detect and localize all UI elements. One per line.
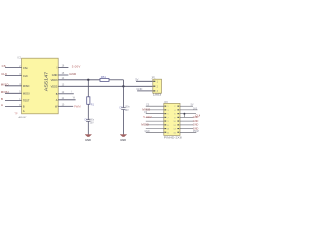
svg-text:GND: GND xyxy=(136,87,142,91)
wire JP2 left row1 xyxy=(146,105,164,107)
svg-text:FB1: FB1 xyxy=(101,75,107,79)
node junction on VDD3 wire xyxy=(87,79,89,81)
svg-text:1X03: 1X03 xyxy=(153,93,162,97)
svg-text:MISO: MISO xyxy=(23,84,30,88)
svg-text:5.00V: 5.00V xyxy=(72,65,81,69)
svg-text:100n: 100n xyxy=(89,120,95,122)
svg-text:GND: GND xyxy=(120,138,126,142)
svg-text:B: B xyxy=(1,97,3,101)
pin MISO (left row3) xyxy=(5,83,29,88)
svg-text:MOSI: MOSI xyxy=(141,123,149,127)
svg-text:VDD3: VDD3 xyxy=(51,78,58,82)
pin MOSI (left row4) xyxy=(5,91,30,96)
capacitor C7 xyxy=(119,106,130,112)
wire JP2 right row3 CLK with junction xyxy=(180,113,201,118)
wire R1 to C6 xyxy=(87,104,89,119)
svg-text:5.00V: 5.00V xyxy=(143,115,152,119)
svg-text:CLK: CLK xyxy=(23,74,28,78)
connector JP2 2x8 header xyxy=(164,103,180,135)
svg-text:A: A xyxy=(56,98,58,102)
resistor R1 xyxy=(87,97,95,107)
svg-text:CS: CS xyxy=(146,105,150,107)
svg-text:B: B xyxy=(23,105,25,109)
svg-text:PWM: PWM xyxy=(193,131,199,133)
wire JP2 right row1 5V xyxy=(180,103,194,106)
wire branch A vertical from junction xyxy=(87,80,89,98)
svg-text:MISO: MISO xyxy=(1,82,10,86)
svg-text:CS: CS xyxy=(144,112,148,114)
svg-text:GND: GND xyxy=(193,124,199,127)
svg-text:CLK: CLK xyxy=(1,72,7,76)
svg-text:B: B xyxy=(56,92,58,96)
svg-text:CSn: CSn xyxy=(23,66,29,70)
pin A right row6 xyxy=(56,96,76,102)
inductor L1 ferrite bead xyxy=(100,75,109,81)
pin A (left row7, unconnected) xyxy=(14,109,25,115)
svg-text:GND: GND xyxy=(52,73,58,77)
wire JP2 right row6 xyxy=(180,124,199,127)
pin W right row7 xyxy=(55,103,73,108)
wire VDD3 bead to corner xyxy=(109,79,123,81)
pin B (left row6) xyxy=(5,104,25,109)
ground right xyxy=(120,135,127,142)
svg-text:PWM: PWM xyxy=(74,104,81,108)
svg-text:JP2: JP2 xyxy=(164,102,169,104)
svg-text:10V: 10V xyxy=(90,123,95,125)
svg-text:GND: GND xyxy=(145,131,150,133)
pin CLK (left row2) xyxy=(5,73,28,78)
svg-text:TP: TP xyxy=(14,112,18,115)
wire JP2 left row7 xyxy=(146,128,164,130)
svg-text:100n: 100n xyxy=(125,107,131,109)
wire GND into SV1 pin3 xyxy=(136,87,152,91)
svg-text:10V: 10V xyxy=(125,110,130,112)
wire branch B corner down xyxy=(122,80,124,108)
wire JP2 left row6 MOSI xyxy=(141,123,163,127)
wire C7 to ground xyxy=(122,110,124,135)
pin B right row5 xyxy=(56,91,74,96)
wire JP2 left row5 xyxy=(146,120,164,122)
wire VDD3 from pin to bead xyxy=(58,79,100,81)
ground left xyxy=(85,135,92,142)
svg-text:AS5147: AS5147 xyxy=(44,71,49,91)
JP2 pin squares and numbers xyxy=(164,106,179,135)
pin VDD3 (right row3) xyxy=(51,77,65,82)
wire JP2 right row5 xyxy=(180,120,199,123)
pin TEST (left row5) xyxy=(5,98,30,103)
svg-text:A: A xyxy=(23,109,25,113)
wire JP2 left row4 5.00V xyxy=(143,115,164,119)
svg-text:VDD5: VDD5 xyxy=(51,84,58,88)
capacitor C6 xyxy=(84,118,94,124)
wire JP2 right row4 xyxy=(180,116,199,119)
wire C6 to ground xyxy=(87,121,89,134)
wire JP2 right row8 xyxy=(180,131,199,133)
svg-text:GND: GND xyxy=(69,72,76,76)
pin VDD5 (right row4) xyxy=(51,83,65,88)
wire VDD5 to header SV1 pin2 xyxy=(58,85,153,87)
wire JP2 left row3 xyxy=(144,112,164,114)
svg-text:3V3: 3V3 xyxy=(193,108,198,110)
wire JP2 right row7 xyxy=(180,127,199,130)
connector SV1 1x3 header xyxy=(153,79,162,93)
node junction on VDD5 wire xyxy=(122,85,124,87)
pin I (right row1) xyxy=(57,64,69,69)
svg-text:5V: 5V xyxy=(135,77,138,81)
wire JP2 left row8 xyxy=(145,131,164,133)
svg-text:CS: CS xyxy=(2,64,6,68)
svg-text:MOSI: MOSI xyxy=(1,90,9,94)
svg-text:PINHD-2X8: PINHD-2X8 xyxy=(164,135,182,139)
svg-text:MISO: MISO xyxy=(142,107,151,111)
svg-text:A: A xyxy=(1,103,3,107)
svg-text:JP1: JP1 xyxy=(151,77,156,80)
wire 5V into SV1 pin1 xyxy=(135,77,153,81)
wire JP2 left row2 MISO xyxy=(142,107,163,111)
svg-text:IC1: IC1 xyxy=(18,56,22,59)
svg-text:GND: GND xyxy=(193,120,199,123)
svg-text:GND: GND xyxy=(193,116,199,119)
svg-text:TEST: TEST xyxy=(23,99,30,103)
IC1 AS5147 encoder IC body xyxy=(22,58,59,114)
svg-text:5V: 5V xyxy=(191,103,194,106)
pin CSn (left row1) xyxy=(5,65,28,70)
svg-text:GND: GND xyxy=(85,138,91,142)
wire JP2 right row2 xyxy=(180,108,198,110)
svg-text:AS5147: AS5147 xyxy=(19,116,28,119)
pin GND (right row2) xyxy=(52,72,69,77)
svg-text:MOSI: MOSI xyxy=(23,92,30,96)
